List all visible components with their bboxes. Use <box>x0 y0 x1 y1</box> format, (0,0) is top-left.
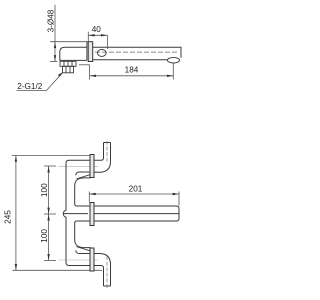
svg-text:184: 184 <box>125 65 139 74</box>
dimension 100 (top) lines <box>44 166 56 214</box>
bottom wall flange <box>90 248 94 271</box>
valve ellipse near flange <box>98 49 107 56</box>
main body tube left edge <box>63 160 69 265</box>
wall flange (side view) <box>88 42 93 62</box>
dimension 201 arrows <box>90 193 96 195</box>
dimension 3-Ø48 arrows <box>54 42 56 48</box>
svg-text:3-Ø48: 3-Ø48 <box>47 9 56 32</box>
dimension 3-Ø48 line <box>50 5 88 62</box>
main body right edge upper segment (fillet to top flange) <box>75 178 91 206</box>
top wall flange <box>90 155 94 178</box>
elbow right edge / wall rim <box>86 42 88 61</box>
top branch tube bottom edge (wall side) <box>76 172 94 175</box>
dimension 100 (bottom) lines <box>44 214 56 260</box>
dimension 245 lines <box>12 155 102 270</box>
svg-text:100: 100 <box>40 183 49 197</box>
dimension 201 lines <box>89 192 179 206</box>
leader line 2-G1/2 <box>17 73 63 91</box>
inlet nut fitting (G1/2) <box>60 61 76 73</box>
svg-text:201: 201 <box>129 185 143 194</box>
elbow body (side view) <box>60 47 87 60</box>
spout branch tubes (through wall) <box>64 206 94 221</box>
top riser centerline (dashed) <box>106 141 108 163</box>
svg-text:2-G1/2: 2-G1/2 <box>17 82 42 91</box>
spout outlet ellipse <box>168 57 180 63</box>
dimension 40 arrows <box>89 34 95 36</box>
spout centerline (dashed) <box>95 51 178 53</box>
leader arrow <box>58 72 64 77</box>
bottom branch tube top edge (wall side) <box>76 250 94 253</box>
top branch taper line <box>77 174 91 179</box>
main body right edge lower segment (fillet to bottom flange) <box>75 221 91 248</box>
bottom branch taper line <box>77 247 91 252</box>
top branch tube top edge <box>69 159 93 161</box>
svg-text:100: 100 <box>40 229 49 243</box>
svg-text:40: 40 <box>92 25 102 34</box>
svg-text:245: 245 <box>4 210 13 224</box>
spout tube (side view) <box>93 47 181 60</box>
dimension 100 (top) arrows <box>47 166 49 172</box>
top branch elbow and riser pipe <box>93 143 110 173</box>
dimension 100 (bottom) arrows <box>47 214 49 220</box>
dimension 40 lines <box>88 32 107 49</box>
bottom drop pipe centerline (dashed) <box>106 256 108 288</box>
dimension 184 arrows <box>90 75 96 77</box>
dimension 184 lines <box>79 63 173 79</box>
faint centerline bottom branch <box>58 259 98 261</box>
spout wall flange <box>90 203 94 226</box>
dimension 245 arrows <box>15 156 17 162</box>
faint centerline top branch <box>58 165 98 167</box>
spout tube (plan view) <box>93 206 179 221</box>
bottom branch elbow and drop pipe <box>93 254 110 287</box>
bottom branch tube bottom edge <box>69 265 93 267</box>
